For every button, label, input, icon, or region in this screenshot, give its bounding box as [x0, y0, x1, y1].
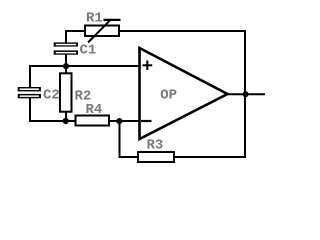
- junction node C: [116, 118, 122, 124]
- resistor R1 body: [85, 26, 119, 37]
- wire right rail vertical: [244, 30, 246, 158]
- wire from R1 right to top-right corner: [119, 30, 246, 32]
- wire from R1 left to C1 branch corner: [65, 30, 85, 32]
- capacitor C2 bottom plate: [18, 94, 41, 98]
- svg-text:OP: OP: [160, 88, 177, 104]
- R1 preset wiper top bar: [104, 19, 121, 21]
- resistor R3 body: [138, 152, 174, 162]
- capacitor C1 bottom plate: [54, 50, 78, 54]
- op-amp plus sign horizontal: [143, 64, 153, 66]
- junction output node: [243, 91, 249, 97]
- wire R2 top lead: [65, 66, 67, 74]
- wire node C down to R3 row: [119, 121, 121, 158]
- svg-text:R1: R1: [86, 10, 103, 26]
- wire non-inverting input row: [29, 65, 140, 67]
- svg-text:C1: C1: [80, 43, 97, 59]
- op-amp plus sign vertical: [146, 61, 148, 71]
- wire C1 top lead vertical: [65, 30, 67, 44]
- op-amp minus sign: [141, 120, 152, 122]
- wire R4 left lead: [65, 120, 76, 122]
- wire R3 left lead: [119, 156, 139, 158]
- wire R3 right lead: [174, 156, 246, 158]
- wire C2 top lead: [29, 65, 31, 88]
- svg-text:R3: R3: [147, 137, 164, 153]
- op-amp U1 triangle: [140, 48, 228, 139]
- junction node B: [63, 118, 69, 124]
- R1 preset wiper diagonal: [88, 19, 111, 42]
- capacitor C1 top plate: [54, 42, 78, 46]
- wire inverting input: [120, 120, 141, 122]
- resistor R4 body: [76, 116, 110, 126]
- wire bottom-left horizontal: [29, 120, 66, 122]
- wire output stub: [226, 93, 265, 95]
- resistor R2 body: [60, 73, 72, 111]
- svg-text:C2: C2: [43, 87, 60, 103]
- C1 bottom lead: [65, 54, 67, 67]
- capacitor C2 top plate: [18, 87, 41, 91]
- wire R4 right lead: [109, 120, 120, 122]
- wire C2 bottom lead: [29, 98, 31, 123]
- wire R2 bottom lead: [65, 112, 67, 121]
- junction node A: [63, 63, 69, 69]
- svg-text:R4: R4: [86, 102, 103, 118]
